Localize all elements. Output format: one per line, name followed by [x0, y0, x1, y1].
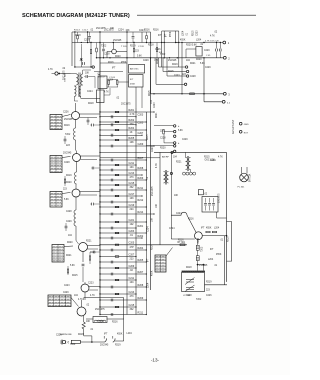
wire rung — [100, 267, 136, 269]
svg-text:8V 0.3A: 8V 0.3A — [249, 173, 252, 182]
svg-text:R216: R216 — [144, 30, 150, 32]
svg-text:IFT: IFT — [158, 35, 162, 37]
wire to terminal 4 — [204, 101, 222, 103]
svg-text:RT 301: RT 301 — [178, 242, 186, 244]
svg-text:C226: C226 — [206, 295, 212, 297]
loop detour — [227, 222, 232, 262]
svg-text:5.6K: 5.6K — [192, 45, 197, 47]
svg-text:R209: R209 — [138, 297, 144, 300]
svg-text:R202: R202 — [129, 119, 135, 122]
svg-text:R218: R218 — [75, 35, 81, 37]
svg-text:R218: R218 — [228, 236, 230, 242]
wire rung — [100, 189, 146, 191]
wire arrow to Q202 — [62, 157, 71, 158]
transistor Q101 converter — [112, 49, 117, 54]
wire rung — [100, 121, 146, 123]
svg-text:455K: 455K — [152, 270, 154, 276]
wire — [115, 340, 124, 342]
resistor R206 — [64, 179, 66, 183]
wire lamp lead — [246, 167, 248, 173]
svg-text:1K: 1K — [130, 131, 133, 134]
wire box top edge — [154, 151, 227, 153]
svg-text:R220: R220 — [66, 182, 72, 184]
svg-text:R208: R208 — [138, 167, 144, 170]
svg-text:C217: C217 — [129, 193, 135, 196]
svg-text:10K: 10K — [126, 30, 131, 32]
svg-text:R207: R207 — [138, 157, 144, 160]
svg-text:C228: C228 — [104, 54, 110, 56]
wire inner vertical — [170, 152, 172, 239]
resistor R106 — [133, 48, 135, 52]
wire rung — [100, 206, 146, 208]
svg-text:455K: 455K — [117, 334, 123, 336]
variable capacitor VC1b — [185, 285, 195, 292]
wire rung — [100, 286, 146, 288]
capacitor C202 — [87, 120, 90, 122]
resistor R301 zigzag — [82, 322, 85, 329]
svg-text:R215: R215 — [149, 90, 151, 96]
resistor R109 — [116, 80, 118, 84]
svg-text:C213: C213 — [129, 291, 135, 294]
wire rung — [100, 159, 146, 161]
osc coil box L105 — [196, 47, 202, 56]
resistor R222 — [89, 256, 91, 260]
svg-text:2SC1675: 2SC1675 — [121, 104, 131, 106]
wire rung — [100, 221, 146, 223]
connector pin P3 — [174, 142, 176, 144]
svg-text:C223: C223 — [174, 75, 180, 77]
wire — [82, 70, 84, 74]
svg-text:4.7K: 4.7K — [78, 299, 83, 301]
svg-text:VC 201: VC 201 — [183, 295, 191, 297]
resistor R230 — [163, 130, 165, 134]
wire — [197, 265, 199, 271]
wire rung — [100, 279, 136, 281]
wire — [80, 113, 101, 115]
wire vertical bus E — [150, 67, 152, 290]
svg-text:473: 473 — [130, 295, 135, 298]
wire rung — [100, 293, 136, 295]
wire — [75, 226, 77, 241]
wire vertical bus D lower — [145, 250, 147, 315]
svg-text:47P: 47P — [130, 246, 135, 249]
svg-text:455K: 455K — [180, 40, 186, 42]
svg-text:R212: R212 — [138, 199, 144, 202]
wire rung — [100, 116, 136, 118]
svg-text:455K: 455K — [130, 84, 136, 86]
wire — [83, 69, 91, 71]
svg-text:R219: R219 — [206, 282, 212, 284]
svg-text:2SC945: 2SC945 — [100, 345, 109, 347]
wire rung — [100, 174, 142, 176]
svg-text:C226: C226 — [84, 40, 90, 42]
wire — [104, 94, 110, 96]
svg-text:C223: C223 — [152, 146, 154, 152]
wire — [163, 134, 165, 143]
wire box right edge — [226, 152, 228, 282]
wire arrow to Q206 — [71, 298, 79, 307]
svg-text:T202: T202 — [101, 46, 107, 48]
svg-text:C224: C224 — [176, 213, 182, 215]
wire — [88, 76, 95, 78]
svg-text:C 117: C 117 — [82, 30, 88, 32]
wire — [87, 32, 89, 43]
svg-text:GND: GND — [244, 124, 249, 126]
wire to terminal 3 — [151, 93, 224, 95]
wire — [75, 140, 77, 151]
wire — [80, 47, 82, 59]
svg-text:R208: R208 — [138, 284, 144, 287]
svg-text:2SC945: 2SC945 — [113, 40, 122, 42]
wire rung — [100, 237, 142, 239]
variable capacitor VC1a — [185, 278, 195, 285]
wire rung — [100, 129, 146, 131]
svg-text:2SC945: 2SC945 — [199, 265, 208, 267]
ant transformer T202 — [164, 172, 166, 183]
svg-text:10K: 10K — [86, 321, 91, 323]
wire — [98, 74, 100, 76]
wire — [87, 248, 98, 250]
svg-text:R221: R221 — [66, 255, 72, 257]
svg-text:5.6K: 5.6K — [64, 199, 69, 201]
svg-text:R216: R216 — [178, 240, 184, 242]
resistor R311 — [212, 231, 216, 233]
jack pin J3 — [239, 131, 242, 134]
wire — [175, 31, 177, 43]
wire — [80, 159, 97, 161]
svg-text:C205: C205 — [138, 122, 144, 125]
svg-text:R205: R205 — [138, 259, 144, 262]
wire — [89, 286, 100, 288]
wire — [71, 32, 73, 66]
svg-text:R215: R215 — [72, 275, 78, 277]
wire base lead — [171, 238, 195, 240]
wire rung — [100, 134, 142, 136]
terminal 3 — [223, 92, 226, 95]
coil L203 — [74, 210, 76, 226]
svg-text:AM RF: AM RF — [162, 156, 169, 159]
capacitor C206 — [92, 124, 94, 127]
svg-text:2SC945: 2SC945 — [64, 119, 73, 121]
svg-text:4.7K: 4.7K — [156, 163, 158, 168]
svg-text:IFT: IFT — [148, 258, 150, 262]
svg-text:R218: R218 — [88, 103, 94, 105]
if transformer T104 can — [129, 75, 144, 87]
svg-text:C205: C205 — [129, 242, 135, 245]
capacitor C215 — [216, 49, 218, 52]
wire — [112, 336, 114, 339]
wire rung — [100, 157, 160, 159]
wire rung — [100, 314, 146, 316]
wire — [75, 120, 77, 129]
wire lamp lead — [240, 167, 242, 173]
transistor Q201 if amp — [72, 112, 80, 120]
svg-text:L204: L204 — [214, 227, 220, 229]
svg-text:R216: R216 — [152, 244, 154, 250]
wire — [103, 336, 105, 339]
if transformer T103 can — [129, 65, 145, 74]
wire — [150, 32, 152, 67]
svg-text:R220: R220 — [115, 56, 121, 58]
svg-text:455K: 455K — [206, 227, 212, 229]
svg-text:330: 330 — [130, 123, 135, 126]
coil loops L205 — [183, 172, 186, 175]
svg-text:C228: C228 — [160, 138, 166, 140]
wire rf loop bottom — [75, 66, 92, 68]
wire — [107, 79, 118, 81]
svg-text:C228: C228 — [64, 162, 70, 164]
wire — [83, 298, 85, 300]
wire — [100, 62, 127, 64]
svg-text:R215: R215 — [147, 134, 149, 140]
wire — [94, 77, 96, 89]
wire top rail AGC — [72, 31, 151, 33]
resistor R108 — [108, 80, 110, 84]
svg-text:T202: T202 — [160, 54, 166, 56]
svg-text:455K: 455K — [121, 62, 127, 64]
ferrite bar antenna T101 — [76, 74, 78, 85]
coil L202 — [75, 172, 77, 184]
wire rung — [100, 169, 146, 171]
resistor R115 — [156, 48, 158, 52]
wire — [83, 329, 85, 336]
svg-text:IFT: IFT — [210, 249, 214, 251]
svg-text:10K: 10K — [156, 203, 158, 208]
svg-text:C209: C209 — [138, 143, 144, 146]
wire rung — [100, 139, 146, 141]
transistor Q206 af out — [77, 307, 86, 316]
wire osc path — [171, 212, 196, 232]
wire — [163, 31, 165, 58]
svg-text:C203: C203 — [129, 230, 135, 233]
svg-text:C211: C211 — [129, 277, 135, 280]
svg-text:R220: R220 — [67, 242, 73, 244]
node circle — [92, 66, 94, 68]
wire — [80, 194, 97, 196]
gang hatch — [182, 271, 205, 273]
svg-text:C215: C215 — [129, 182, 135, 185]
svg-text:AM OSC: AM OSC — [130, 68, 139, 71]
svg-text:C221: C221 — [129, 219, 135, 222]
svg-text:4.7K: 4.7K — [218, 157, 223, 159]
svg-text:C228: C228 — [190, 76, 196, 78]
switch staircase S101 — [159, 58, 186, 67]
svg-text:R204: R204 — [138, 247, 144, 250]
svg-text:R218: R218 — [148, 45, 154, 47]
wire — [76, 162, 78, 173]
svg-text:2SC1675: 2SC1675 — [219, 193, 221, 203]
wire — [123, 319, 125, 341]
svg-text:332: 332 — [130, 186, 135, 189]
svg-text:R221: R221 — [156, 112, 158, 118]
wire — [76, 151, 78, 154]
svg-text:C207: C207 — [138, 132, 144, 135]
capacitor C212 — [65, 226, 68, 228]
wire vertical bus C — [135, 108, 137, 315]
svg-text:R205: R205 — [129, 137, 135, 140]
resistor R312 — [180, 244, 185, 246]
wire rung — [100, 124, 136, 126]
wire — [84, 282, 86, 284]
svg-text:R211: R211 — [138, 311, 144, 314]
wire rung — [100, 227, 136, 229]
svg-text:R220: R220 — [160, 148, 166, 150]
wire — [178, 31, 180, 67]
svg-text:R221: R221 — [86, 241, 92, 243]
wire — [86, 318, 93, 320]
svg-text:10K: 10K — [130, 141, 135, 144]
svg-text:C211: C211 — [129, 162, 135, 165]
wire — [71, 73, 77, 75]
wire — [141, 32, 143, 43]
resistor R101 — [77, 36, 79, 39]
svg-text:C224: C224 — [87, 91, 93, 93]
padder box — [202, 197, 218, 213]
svg-text:R209: R209 — [138, 177, 144, 180]
wire vertical bus A — [99, 43, 101, 315]
capacitor C204 — [64, 139, 67, 141]
svg-text:R 113: R 113 — [74, 30, 80, 32]
svg-text:C224: C224 — [139, 30, 145, 32]
svg-text:R219: R219 — [130, 46, 136, 48]
varactor D302 — [196, 256, 199, 261]
coil can L103 — [97, 90, 105, 103]
svg-text:5.6K: 5.6K — [178, 130, 183, 132]
wire rung — [100, 145, 154, 147]
wire — [81, 97, 100, 99]
wire — [197, 250, 199, 256]
wire rf loop left — [74, 32, 76, 67]
wire long rung bottom — [100, 244, 187, 246]
svg-text:IFT: IFT — [201, 227, 205, 229]
wire — [83, 316, 85, 322]
wire rail to terminal 2 — [97, 57, 224, 59]
svg-text:4.7K: 4.7K — [130, 113, 135, 116]
wire vertical bus B — [126, 65, 128, 315]
svg-text:10K: 10K — [85, 73, 90, 75]
wire — [185, 49, 187, 58]
capacitor C106 — [83, 62, 85, 65]
svg-text:C229: C229 — [66, 221, 72, 223]
connector pin P4 — [174, 145, 176, 147]
junction dots — [87, 42, 88, 43]
wire — [80, 191, 100, 193]
resistor R107 — [90, 50, 92, 54]
svg-text:R215: R215 — [204, 157, 210, 159]
svg-text:455K: 455K — [170, 31, 172, 37]
osc transformer T201 — [186, 158, 188, 170]
wire — [176, 42, 179, 44]
svg-text:EARPHONE: EARPHONE — [60, 333, 72, 336]
wire rung — [100, 273, 146, 275]
wire — [118, 81, 129, 83]
svg-text:C229: C229 — [182, 139, 188, 141]
node marker — [171, 151, 173, 153]
capacitor C214 — [92, 203, 94, 206]
svg-text:5.6K: 5.6K — [137, 56, 142, 58]
wire — [203, 265, 205, 271]
wire — [82, 252, 84, 263]
svg-text:R219: R219 — [172, 64, 178, 66]
svg-text:IFT: IFT — [104, 334, 108, 336]
title rule — [137, 14, 256, 16]
wire rung — [100, 184, 136, 186]
voltage chart TB4 — [52, 245, 64, 263]
svg-text:R221: R221 — [190, 63, 196, 65]
capacitor C216 — [220, 49, 222, 52]
svg-text:2SC1675: 2SC1675 — [95, 309, 105, 311]
wire rung — [100, 249, 146, 251]
wire — [123, 298, 125, 319]
svg-text:SCHEMATIC DIAGRAM (M2412F T: SCHEMATIC DIAGRAM (M2412F TUNER) — [22, 13, 130, 19]
wire arrow to Q204 — [64, 245, 73, 248]
earphone jack J301 — [62, 340, 65, 343]
svg-text:C223: C223 — [88, 283, 94, 285]
wire — [81, 155, 101, 157]
resistor R103 — [146, 36, 148, 39]
dial lamp PL1 — [240, 173, 249, 182]
svg-text:L204: L204 — [127, 333, 133, 335]
wire — [198, 264, 204, 266]
wire vertical feed 182 — [181, 43, 183, 94]
transistor Q204 detector — [79, 243, 88, 252]
wire rung — [100, 256, 136, 258]
wire rung — [100, 299, 146, 301]
wire top rail osc — [162, 30, 179, 32]
wire — [75, 184, 77, 189]
wire — [73, 97, 75, 102]
svg-text:C223: C223 — [154, 102, 156, 108]
wire antenna lead — [60, 73, 70, 75]
svg-text:C224: C224 — [118, 30, 124, 32]
wire — [216, 212, 218, 218]
wire rung — [100, 164, 136, 166]
wire — [75, 197, 77, 210]
wire arrow TB6 — [166, 248, 173, 257]
svg-text:C229: C229 — [63, 292, 69, 294]
svg-text:R216: R216 — [188, 219, 194, 221]
open pin P6 — [174, 150, 176, 152]
svg-text:C 120: C 120 — [138, 46, 145, 48]
resistor R120 — [190, 93, 195, 95]
svg-text:L204: L204 — [208, 259, 214, 261]
svg-text:R214: R214 — [138, 211, 144, 214]
varactor D301 — [196, 245, 199, 250]
wire — [185, 152, 187, 157]
wire — [75, 103, 77, 112]
wire — [108, 84, 110, 87]
wire rung — [100, 195, 142, 197]
wire rung — [100, 179, 146, 181]
svg-text:R215: R215 — [193, 30, 195, 36]
svg-text:103 47: 103 47 — [98, 77, 105, 79]
wire rung — [100, 201, 136, 203]
svg-text:224: 224 — [130, 208, 135, 211]
svg-text:L204: L204 — [148, 282, 150, 288]
svg-text:R211: R211 — [138, 187, 144, 190]
svg-text:455K: 455K — [216, 254, 222, 256]
svg-text:4.7K: 4.7K — [104, 92, 109, 94]
svg-text:R204: R204 — [129, 127, 135, 130]
wire box left edge — [159, 152, 161, 244]
svg-text:R207: R207 — [138, 271, 144, 274]
svg-text:R202: R202 — [138, 235, 144, 238]
svg-text:R221: R221 — [157, 58, 159, 64]
svg-text:-13-: -13- — [151, 358, 160, 363]
svg-text:IFT: IFT — [166, 33, 168, 37]
wire — [90, 43, 92, 50]
svg-text:R221: R221 — [176, 162, 182, 164]
